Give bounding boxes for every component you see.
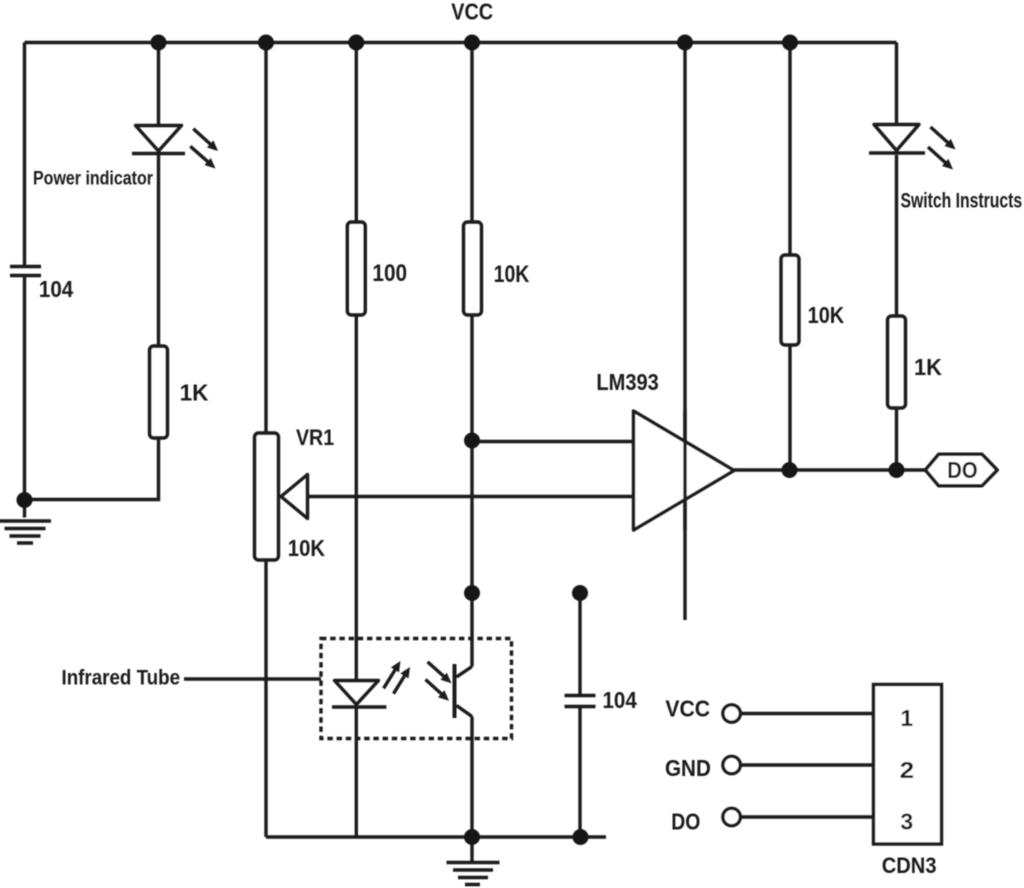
svg-text:VCC: VCC [665, 696, 710, 722]
svg-text:1K: 1K [180, 380, 209, 406]
svg-text:100: 100 [372, 260, 407, 287]
svg-text:10K: 10K [288, 535, 326, 561]
svg-text:Power indicator: Power indicator [33, 168, 153, 190]
svg-text:10K: 10K [494, 261, 530, 288]
svg-text:104: 104 [603, 687, 637, 713]
svg-text:1K: 1K [914, 354, 942, 380]
svg-text:2: 2 [900, 757, 915, 783]
svg-text:DO: DO [947, 457, 977, 483]
svg-text:VCC: VCC [451, 0, 493, 25]
svg-text:3: 3 [900, 809, 913, 835]
svg-text:VR1: VR1 [296, 425, 334, 450]
svg-text:LM393: LM393 [596, 369, 658, 395]
svg-text:Infrared Tube: Infrared Tube [62, 667, 181, 690]
svg-text:CDN3: CDN3 [882, 853, 937, 878]
svg-text:104: 104 [39, 276, 73, 302]
svg-text:GND: GND [665, 755, 711, 781]
svg-text:Switch Instructs: Switch Instructs [901, 190, 1023, 213]
svg-text:1: 1 [900, 705, 913, 731]
svg-text:DO: DO [671, 809, 700, 835]
svg-text:10K: 10K [808, 302, 845, 328]
